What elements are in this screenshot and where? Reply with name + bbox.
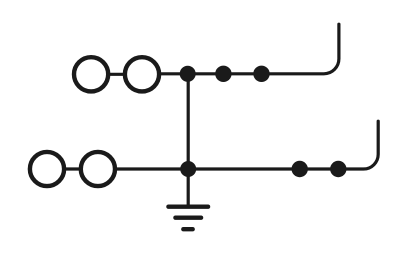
- wire: stub between bottom contact circles: [62, 167, 83, 170]
- wire: top rail with hook-up at right: [158, 24, 339, 74]
- junction dot: node B (bottom rail / cross-connection): [180, 161, 196, 177]
- ground: [168, 169, 208, 229]
- contact circle 3 (bottom rail, left): [30, 152, 64, 186]
- contact circle 2 (top rail, right): [125, 57, 159, 91]
- junction dot (bottom rail, middle): [292, 161, 308, 177]
- junction dot (top rail, middle): [215, 66, 231, 82]
- wire: bottom rail with hook-up at right: [113, 121, 378, 169]
- contact circle 4 (bottom rail, right): [81, 152, 115, 186]
- wire: cross-connection vertical from top rail to bottom rail: [187, 74, 190, 169]
- contact circle 1 (top rail, left): [74, 57, 108, 91]
- junction dot (bottom rail, right): [330, 161, 346, 177]
- junction dot: node A (top rail / cross-connection): [180, 66, 196, 82]
- wire: stub between top contact circles: [106, 73, 127, 76]
- junction dot (top rail, right): [253, 66, 269, 82]
